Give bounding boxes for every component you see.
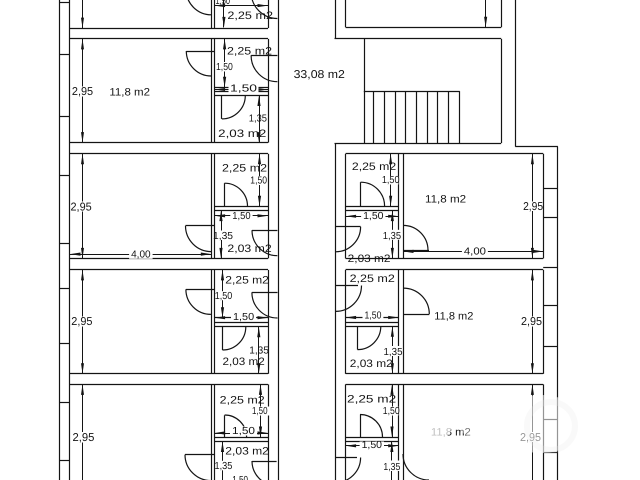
svg-text:2,95: 2,95: [73, 432, 95, 444]
svg-text:1,50: 1,50: [363, 211, 384, 222]
svg-text:1,35: 1,35: [383, 231, 402, 242]
svg-text:33,08 m2: 33,08 m2: [294, 69, 345, 81]
svg-text:2,95: 2,95: [71, 316, 92, 328]
svg-text:2,25 m2: 2,25 m2: [227, 45, 272, 57]
svg-text:2,25 m2: 2,25 m2: [227, 10, 273, 22]
svg-text:1,50: 1,50: [252, 406, 268, 417]
svg-text:1,50: 1,50: [362, 440, 383, 451]
svg-text:1,35: 1,35: [383, 462, 400, 473]
svg-text:2,95: 2,95: [71, 201, 92, 213]
svg-text:11,8 m2: 11,8 m2: [425, 193, 466, 205]
svg-text:1,50: 1,50: [383, 406, 400, 417]
svg-text:1,50: 1,50: [233, 312, 254, 323]
svg-text:2,95: 2,95: [72, 86, 93, 98]
svg-text:11,8 m2: 11,8 m2: [109, 87, 150, 99]
svg-text:1,50: 1,50: [230, 84, 257, 95]
svg-text:2,95: 2,95: [523, 201, 543, 213]
svg-text:2,95: 2,95: [521, 316, 542, 328]
svg-text:2,25 m2: 2,25 m2: [350, 273, 395, 285]
svg-text:1,50: 1,50: [250, 175, 267, 186]
svg-text:1,50: 1,50: [382, 175, 400, 186]
svg-text:1,50: 1,50: [215, 291, 233, 302]
svg-text:4,00: 4,00: [131, 249, 151, 260]
svg-text:2,03 m2: 2,03 m2: [218, 128, 266, 140]
svg-text:2,03 m2: 2,03 m2: [350, 358, 393, 370]
svg-text:2,03 m2: 2,03 m2: [223, 356, 265, 368]
svg-text:2,25 m2: 2,25 m2: [352, 161, 396, 173]
svg-text:2,03 m2: 2,03 m2: [225, 445, 269, 457]
svg-text:1,35: 1,35: [213, 231, 233, 242]
svg-text:1,50: 1,50: [232, 211, 251, 222]
svg-text:1,50: 1,50: [365, 311, 382, 322]
svg-text:2,25 m2: 2,25 m2: [225, 275, 269, 287]
svg-text:1,50: 1,50: [216, 0, 231, 7]
svg-text:1,35: 1,35: [249, 113, 268, 124]
svg-text:1,35: 1,35: [384, 347, 403, 358]
svg-text:2,25 m2: 2,25 m2: [222, 162, 267, 174]
svg-text:1,50: 1,50: [232, 475, 248, 480]
svg-text:1,50: 1,50: [232, 426, 255, 437]
svg-text:1,35: 1,35: [249, 345, 269, 356]
svg-text:1,50: 1,50: [216, 62, 233, 73]
svg-text:4,00: 4,00: [464, 246, 486, 257]
svg-text:2,25 m2: 2,25 m2: [347, 394, 396, 406]
svg-text:2,03 m2: 2,03 m2: [227, 243, 271, 255]
svg-text:2,03 m2: 2,03 m2: [348, 253, 391, 265]
svg-text:11,8 m2: 11,8 m2: [434, 311, 473, 323]
svg-text:1,35: 1,35: [215, 461, 233, 472]
svg-text:2,25 m2: 2,25 m2: [220, 395, 265, 407]
